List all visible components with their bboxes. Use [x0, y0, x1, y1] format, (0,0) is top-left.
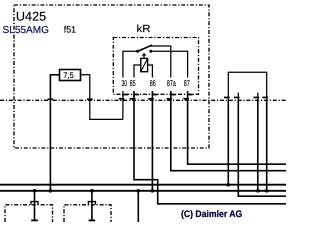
wire pin 87a to right edge — [171, 91, 286, 171]
svg-text:f51: f51 — [64, 25, 76, 35]
wire coil pin 85 — [134, 65, 141, 78]
wire contact 87a — [150, 46, 171, 78]
armature stub — [143, 56, 145, 59]
svg-text:87: 87 — [184, 78, 190, 88]
right pin 2 tick at boundary line — [234, 97, 240, 99]
connector bracket drop 2 — [88, 202, 95, 205]
relay coil — [141, 58, 148, 71]
svg-text:87a: 87a — [167, 78, 176, 88]
relay switch pivot dot — [136, 50, 139, 53]
boundary line (full-width dash-dot) — [0, 99, 286, 101]
relay switch blade — [138, 45, 153, 51]
svg-text:U425: U425 — [16, 9, 46, 23]
right pin stubs — [237, 93, 239, 101]
svg-text:86: 86 — [150, 78, 156, 88]
pin 87 tick at kR box edge — [187, 94, 193, 96]
right pin 4 tick at boundary line — [262, 97, 268, 99]
relay contact 87 dot — [149, 50, 152, 53]
junction dot pin86 on bus2 — [151, 189, 155, 193]
junction dot — [265, 189, 269, 193]
svg-text:85: 85 — [130, 78, 136, 88]
wire fuse right to relay pin 30 — [81, 75, 123, 120]
pin 87 wire tick at boundary line — [183, 98, 189, 100]
right pin 3 tick at boundary line — [254, 97, 260, 99]
svg-text:kR: kR — [137, 24, 151, 35]
ground drop 3 wire — [137, 191, 139, 222]
wire relay pin 30 — [123, 51, 138, 77]
junction dot drop 3 on bus2 — [137, 189, 141, 193]
wire coil pin 86 — [148, 65, 153, 78]
terminal bar drop 1 — [31, 220, 38, 222]
control unit U425 box — [14, 5, 209, 148]
coil diagonal — [141, 58, 148, 71]
connector bracket drop 1 — [31, 202, 38, 205]
wire pin 87 to right edge — [188, 91, 286, 164]
relay armature arrow — [142, 53, 147, 56]
wire pin 85 zigzag to right edge — [134, 91, 286, 204]
pin 85 tick at kR box edge — [133, 94, 139, 96]
wire contact 87 — [151, 51, 188, 77]
svg-text:(C) Daimler AG: (C) Daimler AG — [181, 209, 242, 220]
junction dot — [256, 189, 260, 193]
pin 85 wire tick at boundary line — [130, 98, 136, 100]
junction dot bus1 — [227, 183, 231, 187]
wire right pin 2 — [238, 100, 286, 196]
pin 87a wire tick at boundary line — [167, 98, 173, 100]
relay kR box — [113, 38, 198, 95]
pin 30 wire tick at boundary line — [119, 98, 125, 100]
bridge wire top right — [228, 72, 266, 100]
ground drop 1 wire — [34, 191, 36, 221]
pin 30 tick at kR box edge — [122, 94, 128, 96]
wire pin 86 to bus2 — [151, 91, 153, 191]
svg-text:SL55AMG: SL55AMG — [3, 25, 50, 36]
fuse left wire pin tick at boundary line — [48, 98, 54, 100]
ground drop 2 wire — [91, 191, 93, 221]
junction dot fuse-left on bus2 — [49, 189, 53, 193]
pin 86 wire tick at boundary line — [148, 98, 154, 100]
pin 87a tick at kR box edge — [170, 94, 176, 96]
wire relay pin 30 lower segment — [122, 91, 124, 119]
wire fuse left — [50, 75, 59, 191]
svg-text:30: 30 — [122, 78, 128, 88]
junction dot drop 2 on bus2 — [90, 189, 94, 193]
connector box 1 (bottom left) — [5, 205, 53, 222]
terminal bar drop 2 — [89, 220, 96, 222]
connector box 2 (bottom middle) — [64, 205, 111, 222]
pin 86 tick at kR box edge — [152, 94, 158, 96]
right pin 1 tick at boundary line — [224, 97, 230, 99]
junction dot drop 1 on bus2 — [33, 189, 37, 193]
wire right pin 1 to bus1 — [227, 100, 229, 184]
bus line 1 — [0, 184, 286, 186]
wire right pin 4 to bus2 — [266, 100, 268, 191]
fuse f51 — [60, 70, 81, 81]
fuse right wire pin tick at boundary line — [87, 98, 93, 100]
bus line 2 — [0, 190, 286, 192]
wire right pin 3 to bus2 — [257, 100, 259, 191]
svg-text:7,5: 7,5 — [63, 71, 74, 80]
